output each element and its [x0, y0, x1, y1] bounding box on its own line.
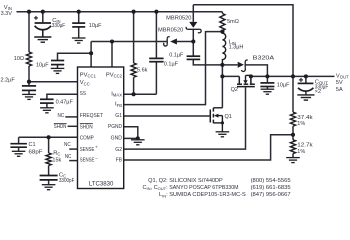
svg-text:0.1µF: 0.1µF: [169, 52, 184, 58]
svg-text:SHDN: SHDN: [80, 124, 93, 130]
svg-text:5.6k: 5.6k: [137, 68, 148, 74]
svg-text:0.1µF: 0.1µF: [164, 61, 179, 67]
svg-text:COMP: COMP: [80, 135, 94, 141]
svg-text:SENSE: SENSE: [80, 147, 95, 153]
svg-text:PGND: PGND: [108, 124, 122, 130]
svg-text:Q1, Q2:: Q1, Q2:: [148, 178, 168, 184]
svg-text:(847) 956-0667: (847) 956-0667: [251, 192, 291, 198]
svg-text:NC: NC: [64, 142, 71, 148]
svg-text:Q1: Q1: [225, 114, 232, 120]
svg-text:C1: C1: [29, 142, 36, 148]
svg-text:SUMIDA CDEP105-1R3-MC-S: SUMIDA CDEP105-1R3-MC-S: [169, 192, 246, 198]
svg-text:MBR0520: MBR0520: [158, 27, 183, 33]
svg-text:GND: GND: [111, 135, 122, 141]
svg-text:SENSE: SENSE: [80, 157, 95, 163]
svg-text:+: +: [95, 145, 98, 150]
svg-text:(800) 554-5565: (800) 554-5565: [251, 178, 291, 184]
svg-text:3300pF: 3300pF: [59, 178, 75, 184]
svg-text:10µF: 10µF: [36, 62, 49, 68]
svg-text:(619) 661-6835: (619) 661-6835: [251, 185, 291, 191]
svg-text:CIN, COUT:: CIN, COUT:: [142, 185, 168, 191]
svg-text:LIN:: LIN:: [159, 192, 168, 198]
svg-text:FREQSET: FREQSET: [80, 113, 104, 119]
svg-text:VCC: VCC: [80, 80, 90, 86]
svg-text:PVCC2: PVCC2: [106, 72, 123, 78]
svg-text:IMAX: IMAX: [111, 91, 122, 97]
svg-text:−: −: [95, 156, 98, 161]
svg-text:1%: 1%: [297, 149, 305, 155]
svg-text:SILICONIX Si7440DP: SILICONIX Si7440DP: [169, 178, 223, 184]
svg-text:10µF: 10µF: [277, 82, 290, 88]
svg-text:RC: RC: [53, 150, 60, 156]
svg-text:LTC3830: LTC3830: [89, 182, 114, 188]
svg-text:Q2: Q2: [231, 87, 238, 93]
svg-text:MBR0520: MBR0520: [166, 16, 191, 22]
svg-text:B320A: B320A: [253, 55, 275, 61]
svg-text:5V: 5V: [336, 80, 343, 86]
svg-text:SS: SS: [80, 91, 86, 97]
svg-text:NC: NC: [58, 113, 65, 119]
svg-text:0.47µF: 0.47µF: [56, 99, 74, 105]
svg-text:3.3V: 3.3V: [1, 11, 13, 17]
svg-text:5mΩ: 5mΩ: [227, 19, 239, 25]
svg-text:10Ω: 10Ω: [14, 56, 24, 62]
svg-text:2.2µF: 2.2µF: [1, 77, 16, 83]
svg-text:330µF: 330µF: [52, 23, 66, 29]
svg-text:IFB: IFB: [115, 102, 122, 108]
svg-text:5A: 5A: [336, 87, 343, 93]
svg-text:68pF: 68pF: [29, 149, 44, 155]
svg-text:G2: G2: [115, 147, 122, 153]
svg-text:10µF: 10µF: [89, 23, 102, 29]
svg-text:SANYO POSCAP 6TPB330M: SANYO POSCAP 6TPB330M: [169, 185, 239, 191]
svg-text:G1: G1: [115, 113, 122, 119]
svg-text:PVCC1: PVCC1: [80, 72, 97, 78]
svg-text:SHDN: SHDN: [54, 124, 67, 130]
svg-text:NC: NC: [65, 154, 72, 160]
svg-text:15k: 15k: [52, 158, 61, 164]
svg-text:×2: ×2: [315, 89, 321, 95]
svg-text:37.4k: 37.4k: [297, 115, 313, 121]
svg-text:VOUT: VOUT: [336, 73, 349, 79]
svg-text:12.7k: 12.7k: [297, 143, 313, 149]
svg-text:1.3µH: 1.3µH: [229, 45, 244, 51]
svg-text:1%: 1%: [297, 121, 305, 127]
svg-text:FB: FB: [116, 157, 122, 163]
